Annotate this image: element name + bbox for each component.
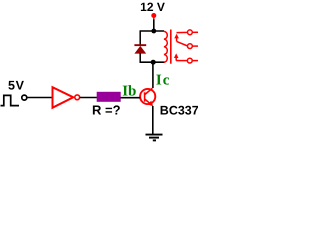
wire contact middle to edge [192,45,198,47]
diode D1 body [134,46,146,54]
relay contact common line bottom [176,60,187,62]
transistor Q1 collector lead [145,88,153,94]
ground bar 2 [149,137,159,139]
ground bar 1 [146,134,163,136]
wire top rail [140,30,165,32]
relay contact terminal circle bottom [187,58,192,63]
resistor R1 body [97,92,121,102]
inverter U1 bubble [75,95,80,100]
relay RL1 core line [170,30,172,64]
wire diode branch lower [139,53,141,62]
relay armature stem lower [175,58,177,61]
transistor Q1 emitter arrow [148,101,153,107]
input terminal circle [22,95,27,100]
wire contact bottom to edge [192,60,198,62]
transistor Q1 emitter lead [145,99,152,105]
transistor Q1 base bar [144,92,146,101]
wire bottom rail [140,61,165,63]
transistor Q1 body circle [140,89,155,104]
wire contact top to edge [192,31,198,33]
wire inverter to resistor [80,97,97,99]
wire resistor to transistor base [121,97,141,99]
wire collector [152,62,154,88]
relay contact terminal circle middle [188,44,193,49]
relay armature diagonal arm [177,41,188,46]
svg-text:Ib: Ib [122,84,136,100]
relay contact terminal circle top [188,30,193,35]
svg-text:5V: 5V [8,78,25,92]
power terminal dot (12V) [151,13,156,18]
pulse waveform symbol [1,95,20,105]
svg-text:12 V: 12 V [140,0,165,14]
svg-text:R =?: R =? [92,103,121,118]
relay RL1 coil [164,31,167,62]
svg-text:BC337: BC337 [160,104,198,118]
node bottom junction [151,60,156,65]
wire diode branch upper [139,31,141,45]
relay armature stem upper [176,38,178,41]
inverter U1 triangle [53,87,74,108]
relay armature arrow upper [174,34,179,39]
relay armature arrow lower [174,53,179,58]
ground bar 3 [153,139,156,141]
wire supply red stem [153,16,155,20]
node top junction [151,29,156,34]
wire input to inverter [27,97,52,99]
wire supply vertical [153,20,155,32]
diode D1 cathode bar [134,44,146,46]
svg-text:Ic: Ic [156,73,171,89]
relay contact NO line top [177,31,188,33]
wire emitter to ground [152,106,154,135]
